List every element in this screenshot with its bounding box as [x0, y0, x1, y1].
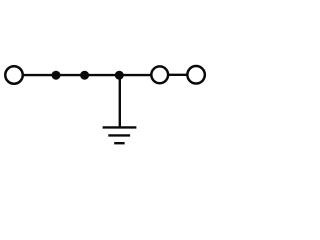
- terminal circle middle right (clamp point 2): [151, 66, 168, 83]
- terminal circle far right (clamp point 3): [187, 66, 205, 84]
- junction dot 2: [80, 71, 89, 80]
- ground (PE earth symbol): [103, 127, 137, 143]
- junction dot 3 (PE tap node): [115, 71, 124, 80]
- junction dot 1: [52, 71, 61, 80]
- wire from left terminal to right terminal: [23, 74, 151, 76]
- wire vertical to ground: [119, 75, 121, 127]
- terminal circle left (clamp point 1): [5, 66, 23, 84]
- wire between right terminals: [169, 74, 187, 76]
